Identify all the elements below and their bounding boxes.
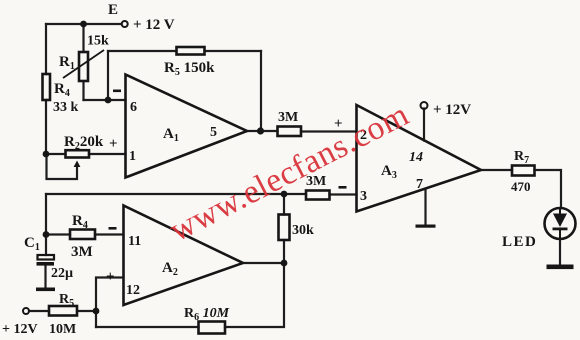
svg-text:3M: 3M xyxy=(71,244,93,260)
wire: inverting input to pin 6 xyxy=(84,99,126,101)
svg-text:R6 10M: R6 10M xyxy=(184,306,230,323)
wire: LED to ground xyxy=(559,239,561,266)
resistor 30k xyxy=(279,215,290,241)
wire: feedback right vertical xyxy=(260,51,262,131)
svg-text:11: 11 xyxy=(128,234,141,249)
junction node at A2 output xyxy=(281,260,288,267)
wire: C1 upper vertical xyxy=(45,194,47,255)
wire: long net to pin 3 xyxy=(46,193,357,196)
svg-text:470: 470 xyxy=(511,179,531,194)
wire: feedback top horizontal xyxy=(108,50,261,52)
wire: 3M to pin 2 xyxy=(301,130,357,132)
resistor R5 10M (bottom left) xyxy=(49,306,77,316)
svg-text:15k: 15k xyxy=(87,34,109,49)
resistor R2 20k potentiometer xyxy=(66,150,90,167)
resistor R4 33k xyxy=(43,74,51,100)
wire: A3 output to R7 and LED xyxy=(481,170,561,208)
ground (below C1) xyxy=(36,288,55,292)
junction node at R5/pin12 xyxy=(93,308,100,315)
junction node at C1/R3 xyxy=(43,231,50,238)
wire: 30k leads xyxy=(283,194,285,263)
minus sign pin 3 xyxy=(339,186,347,189)
svg-text:7: 7 xyxy=(416,177,423,192)
svg-text:+ 12 V: + 12 V xyxy=(133,17,175,33)
svg-text:10M: 10M xyxy=(49,322,76,337)
terminal E (+12V top) xyxy=(122,21,128,27)
wire: pin 1 input xyxy=(46,153,126,155)
wire: A2 output xyxy=(243,262,284,264)
wire: R4 top lead xyxy=(45,24,47,74)
capacitor C1 22u xyxy=(37,255,55,266)
junction node at 30k top xyxy=(281,191,288,198)
resistor R3 3M xyxy=(70,230,95,240)
terminal +12V (A3 supply) xyxy=(421,102,428,109)
svg-text:3: 3 xyxy=(360,189,367,204)
wire: R5 leads xyxy=(29,310,96,312)
svg-text:1: 1 xyxy=(129,149,136,164)
wire: pot wiper return xyxy=(47,154,78,179)
wire: A1 output xyxy=(247,130,278,132)
resistor R7 470 xyxy=(512,166,535,176)
resistor R5 150k feedback xyxy=(177,47,205,55)
svg-text:33 k: 33 k xyxy=(53,100,79,115)
wire: bottom feedback run xyxy=(96,263,284,327)
resistor 3M (to pin 3) xyxy=(306,191,330,200)
wire: R1 bottom lead xyxy=(82,81,84,100)
junction node at pin 1 net xyxy=(43,151,50,158)
resistor 3M (to pin 2) xyxy=(278,127,302,137)
svg-text:3M: 3M xyxy=(278,110,298,125)
junction node on top rail xyxy=(80,21,87,28)
wire: A3 +12V lead xyxy=(423,109,425,141)
junction node at pin 6 net xyxy=(105,97,112,104)
wire: feedback left vertical xyxy=(107,51,109,100)
junction node at A1 output xyxy=(257,127,264,134)
terminal +12V (bottom left) xyxy=(23,308,29,314)
svg-text:14: 14 xyxy=(409,150,423,165)
svg-text:12: 12 xyxy=(126,283,140,298)
svg-text:+: + xyxy=(109,136,118,152)
svg-text:22µ: 22µ xyxy=(51,266,73,281)
wire: pin 12 lead xyxy=(96,278,124,328)
op-amp A1 xyxy=(126,75,248,178)
op-amp A3 xyxy=(357,105,482,212)
resistor R1 (adjustable, 15k) xyxy=(63,50,104,81)
wire: R4 bottom lead to node xyxy=(45,100,47,154)
svg-text:R220k: R220k xyxy=(64,134,104,152)
ground (below LED) xyxy=(547,265,574,270)
wire: R3 leads xyxy=(46,233,124,235)
resistor R6 10M feedback xyxy=(199,322,226,334)
svg-text:R5 150k: R5 150k xyxy=(164,60,215,78)
svg-text:+ 12V: + 12V xyxy=(433,102,471,118)
LED D1 xyxy=(545,208,576,239)
ground (below A3 pin 7) xyxy=(416,225,436,228)
minus sign pin 6 xyxy=(113,90,121,93)
wire: A3 ground lead xyxy=(424,189,426,225)
svg-text:+: + xyxy=(106,269,115,285)
minus sign pin 11 xyxy=(109,227,117,230)
svg-text:6: 6 xyxy=(130,100,137,115)
wire: top supply rail xyxy=(46,23,122,25)
svg-text:E: E xyxy=(108,2,118,18)
wire: C1 to ground xyxy=(44,266,46,289)
svg-text:5: 5 xyxy=(210,125,217,140)
svg-text:LED: LED xyxy=(502,234,537,250)
svg-text:30k: 30k xyxy=(292,223,314,238)
svg-text:+ 12V: + 12V xyxy=(2,322,38,337)
op-amp A2 xyxy=(124,206,244,306)
wire: R1 top lead xyxy=(82,24,84,52)
